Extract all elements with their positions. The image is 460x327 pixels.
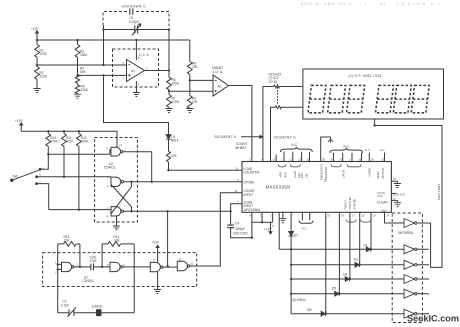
svg-text:150K: 150K <box>80 53 88 57</box>
svg-text:D3: D3 <box>354 257 358 261</box>
resistor R14 <box>102 242 134 247</box>
node D7 row3 <box>290 278 292 280</box>
resistor 22K <box>167 151 171 162</box>
wire rail down to R8 <box>189 40 191 62</box>
svg-text:.005µF: .005µF <box>235 227 245 231</box>
capacitor unknown C symbol <box>130 8 133 14</box>
ground pin stub under IC <box>279 212 286 222</box>
N.C. pins group 2 <box>330 148 363 161</box>
wire U1d out to COUNT INPUT <box>190 193 242 266</box>
callout dashed pointer R15-R22 <box>277 84 279 105</box>
svg-text:17: 17 <box>351 214 355 218</box>
svg-text:13: 13 <box>298 158 302 162</box>
svg-text:10K: 10K <box>192 100 199 104</box>
+12V supply terminal mid-left <box>20 123 23 132</box>
svg-text:35: 35 <box>358 158 362 162</box>
svg-text:UNKNOWN C: UNKNOWN C <box>122 5 147 9</box>
wire U2a power pin14 from rail <box>116 146 118 148</box>
node R1-R2 <box>36 64 38 66</box>
wire R6R7 tap to A2 - input <box>169 90 213 92</box>
svg-text:COUNTER: COUNTER <box>244 171 260 175</box>
wire row1 riser <box>278 212 280 249</box>
ground R9 <box>186 109 193 113</box>
svg-text:N.C: N.C <box>365 148 370 152</box>
gate U1b <box>110 262 122 271</box>
ground R2 <box>33 89 40 93</box>
node display common <box>373 124 375 126</box>
gate U1a <box>62 262 81 271</box>
wire R13 right down to U1a output <box>79 244 81 267</box>
svg-text:33: 33 <box>340 158 344 162</box>
node R10 wire <box>47 153 49 155</box>
svg-text:D7: D7 <box>294 233 298 237</box>
brace pins group2a <box>331 164 341 167</box>
svg-text:BCD: BCD <box>283 172 287 178</box>
svg-text:INHIBIT: INHIBIT <box>235 146 246 150</box>
svg-text:LSD: LSD <box>381 209 386 213</box>
wire feedback vertical x=169 <box>168 30 170 78</box>
svg-text:SeekIC.com: SeekIC.com <box>407 314 459 324</box>
svg-text:BHIE.W ABB MV-H I: BHIE.W ABB MV-H I BI L.E.X.I.E.B S K <box>301 2 442 6</box>
svg-text:D2: D2 <box>364 243 368 247</box>
svg-text:15: 15 <box>306 158 310 162</box>
svg-text:SEGMENT A: SEGMENT A <box>215 135 238 139</box>
node rail-R3 <box>76 39 78 41</box>
pin 10 stub <box>275 155 277 162</box>
wire display segment top (to display pin) <box>263 87 303 162</box>
resistor R5 <box>75 83 79 94</box>
switch SW1 arm <box>11 168 41 181</box>
svg-text:+12V: +12V <box>152 240 160 244</box>
+12V supply terminal top-left <box>36 31 39 40</box>
svg-text:19: 19 <box>373 214 377 218</box>
node rail2-R10 <box>47 130 49 132</box>
svg-text:20: 20 <box>341 214 345 218</box>
diode D6 <box>321 212 327 316</box>
node U2a out join <box>151 181 153 183</box>
diode D4 <box>345 212 351 281</box>
ground pin22 <box>394 184 401 188</box>
pin 30 wire with chassis ground <box>321 137 334 162</box>
resistor R8 <box>187 62 192 81</box>
svg-text:220K: 220K <box>40 52 48 56</box>
wire R8R9 tap to A2 + input <box>190 79 213 81</box>
wire R14 right down to crystal wire <box>133 244 135 313</box>
resistor R10 <box>46 131 51 154</box>
svg-text:26: 26 <box>327 214 331 218</box>
brace bottom pins 17-16 <box>346 220 356 223</box>
resistor segment mini R2 <box>275 106 281 109</box>
node U2b out <box>130 181 132 183</box>
wire A1 power pin 8 <box>135 40 137 60</box>
diode D7 <box>289 212 294 313</box>
svg-text:D4: D4 <box>343 273 347 277</box>
node U1a out <box>79 266 81 268</box>
svg-text:12: 12 <box>289 158 293 162</box>
IC body <box>242 162 391 213</box>
svg-text:UP/DOWN: UP/DOWN <box>244 208 260 212</box>
ground R5 <box>74 94 81 98</box>
svg-text:220K: 220K <box>81 88 89 92</box>
svg-text:COUNTER: COUNTER <box>348 197 352 210</box>
svg-text:+12V: +12V <box>31 27 39 31</box>
svg-text:ZERO: ZERO <box>376 171 380 178</box>
svg-text:+12V: +12V <box>264 227 272 231</box>
svg-text:SN75492A: SN75492A <box>398 231 414 235</box>
N.C. single pin 25 <box>384 153 386 162</box>
node U2c-osc bottom <box>166 265 168 267</box>
svg-text:OSC: OSC <box>377 194 383 198</box>
svg-text:22: 22 <box>393 177 397 181</box>
+12V terminal under IC <box>269 222 272 234</box>
svg-text:D5: D5 <box>332 286 336 290</box>
node rail-A1 power <box>135 39 137 41</box>
wire C4 bottom to bus <box>231 222 252 237</box>
ground pin23 <box>394 203 401 207</box>
svg-text:470K: 470K <box>50 139 58 143</box>
svg-text:LATCH: LATCH <box>342 170 346 178</box>
capacitor C2 <box>67 307 76 316</box>
pin 23 clear stub <box>391 201 397 203</box>
node R8-R9 <box>189 79 191 81</box>
resistor R11 <box>62 131 67 177</box>
wire matrix row 2 <box>291 264 404 266</box>
buffer output stubs <box>417 249 429 313</box>
brace pins group1b <box>290 164 300 167</box>
wire unknown-C left leg vertical <box>103 26 105 66</box>
node pin1 bus <box>261 221 263 223</box>
resistor R6 <box>167 77 172 91</box>
svg-text:470K: 470K <box>66 139 74 143</box>
capacitor C2B <box>91 264 94 271</box>
switch contact b <box>36 176 38 178</box>
svg-text:A2: A2 <box>218 85 222 89</box>
svg-text:11: 11 <box>235 166 238 170</box>
wire display segment G <box>271 107 303 161</box>
svg-text:SEGMENT G: SEGMENT G <box>274 136 297 140</box>
svg-text:FREQ·Y: FREQ·Y <box>343 199 347 209</box>
svg-text:N.C: N.C <box>292 143 298 147</box>
node C4-bus <box>251 237 253 239</box>
wire U2c output to scan input <box>124 204 243 212</box>
svg-text:470K: 470K <box>172 100 180 104</box>
node R3-R4 tap <box>76 74 78 76</box>
node D7 row2 <box>290 264 292 266</box>
wire contact b to U2b input <box>37 176 111 178</box>
svg-text:CLEAR: CLEAR <box>377 201 388 205</box>
buffer 5 <box>404 289 417 298</box>
wire A1 pin 4 to ground <box>135 81 137 93</box>
gate U1d <box>177 261 189 270</box>
wire U1b out to U1c <box>123 266 151 268</box>
gate U2c <box>111 207 123 216</box>
display digits dashed <box>308 85 429 112</box>
wire U2b output / STORE line <box>124 181 243 183</box>
N.C. pins group 1 <box>280 147 312 161</box>
resistor R9 <box>187 80 192 108</box>
N.C. single pin 28 <box>368 153 370 162</box>
node A1 output-feedback <box>168 69 170 71</box>
wire R14 left down to C2B node <box>101 244 103 267</box>
ground U2 <box>113 216 120 230</box>
wire contact c down and to U2c input <box>37 184 49 210</box>
wire D1 to 22K <box>168 139 170 151</box>
wire +12V rail 2 <box>21 131 117 147</box>
node U2c-osc top <box>166 210 168 212</box>
svg-text:SW: SW <box>13 174 18 178</box>
svg-text:39: 39 <box>234 189 238 193</box>
ground U1c <box>154 272 161 294</box>
buffer 2 <box>404 245 417 254</box>
diode D1 <box>166 135 171 140</box>
svg-text:1/2 A: 1/2 A <box>139 53 150 57</box>
svg-text:STORE: STORE <box>244 181 255 185</box>
svg-text:2-20pF: 2-20pF <box>129 20 139 24</box>
crystal 1MHz <box>97 310 102 316</box>
display box HP 5082-7433 <box>303 69 444 119</box>
resistor R1 <box>35 40 40 65</box>
U1 dashed box <box>43 253 197 287</box>
SEGMENT A arrow <box>241 135 263 138</box>
svg-text:10K: 10K <box>114 239 121 243</box>
svg-text:D6*: D6* <box>307 308 313 312</box>
wire matrix row 1 <box>279 248 404 250</box>
svg-text:INPUT: INPUT <box>244 193 254 197</box>
rotated internal labels <box>279 163 385 209</box>
node + input branch down <box>102 74 104 76</box>
svg-text:220K: 220K <box>40 75 48 79</box>
svg-text:16: 16 <box>361 214 365 218</box>
svg-text:27: 27 <box>250 158 254 162</box>
switch contact c <box>36 183 38 185</box>
op-amp A1 dashed box <box>113 49 159 87</box>
buffer 6 <box>404 309 417 318</box>
svg-text:REGISTER: REGISTER <box>324 167 328 180</box>
svg-text:14: 14 <box>119 144 123 148</box>
svg-text:MSD: MSD <box>279 172 283 178</box>
svg-text:10: 10 <box>272 158 276 162</box>
wire matrix row 4 <box>291 293 404 295</box>
svg-text:12: 12 <box>179 258 183 262</box>
svg-text:OUTPUT: OUTPUT <box>381 167 385 178</box>
svg-text:470K: 470K <box>172 82 180 86</box>
node C1 right <box>168 28 170 30</box>
wire display common to right vertical <box>375 126 442 268</box>
+12V supply to U1c <box>156 245 159 262</box>
node C1 left <box>102 28 104 30</box>
svg-text:DIG: DIG <box>300 173 304 178</box>
node 22K-pin11 <box>167 169 169 171</box>
pin scan out stub <box>391 192 396 194</box>
node C4 top <box>229 210 231 212</box>
node rail2-R11 <box>63 130 65 132</box>
svg-text:MK50395N: MK50395N <box>266 184 291 189</box>
wire latch cross coupling <box>111 182 132 214</box>
U2 dashed box <box>95 138 138 223</box>
resistor R2 <box>35 65 40 89</box>
wire U2c out down to oscillator <box>167 211 169 266</box>
buffer 1 <box>404 219 417 228</box>
brace pins group2b <box>347 164 361 167</box>
node U1a in1 <box>57 263 59 265</box>
svg-text:470K: 470K <box>81 139 89 143</box>
node R14-C2B <box>101 266 103 268</box>
node unknown-C left leg <box>102 64 104 66</box>
IC bottom supply bus pins 40,1,2 <box>252 212 273 222</box>
ground A1 <box>133 93 140 97</box>
svg-text:DIGIT LINES: DIGIT LINES <box>437 184 441 200</box>
capacitor C4 <box>227 211 234 227</box>
wire R3R4 tap to A1 non-inverting input <box>78 74 127 76</box>
svg-text:34: 34 <box>331 158 335 162</box>
resistor R12 <box>77 131 82 209</box>
diode D3 <box>355 212 361 267</box>
pin 22 carry stub <box>391 181 397 183</box>
svg-text:N.C: N.C <box>380 148 385 152</box>
ground R7 <box>165 109 172 113</box>
gate U2a <box>110 147 123 156</box>
brace pins group1a <box>278 164 286 167</box>
wire to U2c input <box>49 209 111 211</box>
svg-text:50K: 50K <box>80 70 87 74</box>
svg-text:CD4011: CD4011 <box>83 279 95 283</box>
svg-text:CARRY: CARRY <box>367 167 371 176</box>
svg-text:CD4011: CD4011 <box>104 166 116 170</box>
svg-text:LOAD: LOAD <box>293 171 297 178</box>
svg-text:(1MHz): (1MHz) <box>92 305 102 309</box>
svg-text:STROBE: STROBE <box>353 199 357 210</box>
gate U1c <box>150 262 163 272</box>
wire 22K to LOAD COUNTER line <box>168 162 170 170</box>
wire crystal bottom <box>58 312 135 314</box>
svg-text:N.C.: N.C. <box>302 227 308 231</box>
wire R13 left down to U1a inputs <box>57 244 59 313</box>
svg-text:24: 24 <box>386 214 390 218</box>
wire C2B to U1b <box>94 266 111 268</box>
wire +12V rail y=40 <box>37 39 190 41</box>
svg-text:25: 25 <box>382 158 386 162</box>
svg-text:15K: 15K <box>192 65 199 69</box>
diode D5 <box>335 212 341 296</box>
wire U1c out to U1d <box>163 266 177 268</box>
unknown C dashed box <box>103 12 169 27</box>
svg-text:22K: 22K <box>171 154 178 158</box>
svg-text:47pF: 47pF <box>90 259 97 263</box>
svg-text:30: 30 <box>322 158 326 162</box>
capacitor C1 trimmer <box>104 24 170 36</box>
node R6-R7-A2 <box>168 90 170 92</box>
buffer 4 <box>404 275 417 284</box>
resistor segment mini R <box>274 85 280 88</box>
op-amp A1 <box>127 60 145 82</box>
wire A1 + node down to D1 <box>104 75 169 134</box>
buffer 3 <box>404 260 417 269</box>
svg-text:23: 23 <box>393 197 397 201</box>
svg-text:CER DISC: CER DISC <box>233 231 249 235</box>
gate U2b <box>111 177 123 186</box>
node rail-R1 <box>36 39 38 41</box>
svg-text:FREQUENCY: FREQUENCY <box>320 163 324 180</box>
svg-text:SEL: SEL <box>305 173 309 178</box>
node rail2-R12 <box>78 130 80 132</box>
wire U1a out to C2B <box>80 266 91 268</box>
node D7 row1 <box>290 248 292 250</box>
wire switch contact a up <box>40 154 48 169</box>
svg-text:(6) IN914: (6) IN914 <box>293 298 307 302</box>
input stubs U1a <box>58 264 62 269</box>
brace bottom pins 19-24 <box>361 220 371 223</box>
node R12 wire <box>78 208 80 210</box>
svg-text:4.7pF: 4.7pF <box>61 303 69 307</box>
resistor R13 <box>58 242 80 247</box>
wire A1 output <box>145 70 170 72</box>
node D7 row4 <box>290 293 292 295</box>
wire A2 output to pin 27 <box>229 86 252 162</box>
diode D2 <box>366 212 372 251</box>
svg-text:1/2 A: 1/2 A <box>213 70 223 74</box>
svg-text:N.C: N.C <box>344 144 350 148</box>
wire R1R2 node to A1 inverting input <box>37 64 127 66</box>
svg-text:11: 11 <box>191 262 194 266</box>
wire R10 node to U2a input <box>48 153 110 155</box>
svg-text:N914: N914 <box>171 139 179 143</box>
resistor R7 <box>167 91 172 108</box>
buffers dashed box SN75492A <box>392 213 422 323</box>
wire pin 24 LSD to buffer 1 <box>385 212 405 223</box>
resistor R4 <box>75 75 79 84</box>
wire matrix row 5 <box>291 313 404 315</box>
svg-text:(2) H.P. 5082-7433: (2) H.P. 5082-7433 <box>349 74 382 78</box>
N.C. loop pins under IC <box>299 212 313 223</box>
wire matrix row 3 <box>291 278 404 280</box>
op-amp A2 <box>213 75 229 96</box>
svg-text:10K: 10K <box>64 239 71 243</box>
svg-text:C4: C4 <box>235 221 239 225</box>
wire display common down <box>374 119 376 126</box>
svg-text:+12V: +12V <box>15 119 23 123</box>
svg-text:1/2 W: 1/2 W <box>269 80 277 84</box>
node U2c out <box>130 210 132 212</box>
node R11 wire <box>63 176 65 178</box>
wire LOAD COUNTER pin 11 <box>169 169 243 171</box>
svg-text:28: 28 <box>371 158 375 162</box>
node U1a in2 <box>57 268 59 270</box>
svg-text:A1: A1 <box>131 69 135 73</box>
resistor R3 <box>75 40 80 75</box>
wire U2a output down to store line <box>123 152 152 182</box>
svg-text:40: 40 <box>249 214 253 218</box>
